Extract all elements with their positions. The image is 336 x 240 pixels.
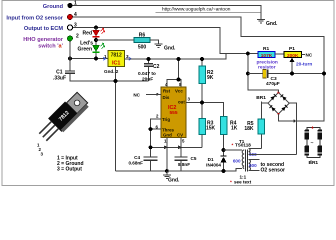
svg-text:R1: R1 xyxy=(263,46,269,52)
wire BR1 top vertex to R1 node column xyxy=(248,54,279,93)
svg-text:*: * xyxy=(230,180,232,185)
svg-text:3: 3 xyxy=(126,54,129,59)
wire rail B trig/thres xyxy=(151,135,203,148)
ground symbol bottom xyxy=(163,171,180,184)
svg-text:out: out xyxy=(178,100,185,105)
svg-text:Gnd.: Gnd. xyxy=(104,69,114,74)
svg-text:BR1: BR1 xyxy=(256,95,266,101)
junction 555 gnd on bottom rail xyxy=(165,169,169,173)
svg-text:R6: R6 xyxy=(139,33,146,39)
resistor R3 xyxy=(199,119,216,148)
wire pin1 ground rail xyxy=(72,6,261,20)
resistor R4 xyxy=(220,117,237,156)
svg-text:470µF: 470µF xyxy=(266,81,280,87)
wire 555 pin7 NC stub xyxy=(146,94,161,96)
wire IC1 gnd column xyxy=(115,67,117,172)
svg-text:IN4004: IN4004 xyxy=(206,163,221,168)
wire T1 secondary top to R5 xyxy=(249,148,262,150)
wire pin4 O2 input net xyxy=(72,17,324,121)
label to second O2 sensor xyxy=(261,162,286,174)
svg-text:2: 2 xyxy=(116,69,119,74)
svg-text:200K: 200K xyxy=(287,53,299,59)
svg-text:Vcc: Vcc xyxy=(175,89,183,94)
svg-text:1: 1 xyxy=(74,1,77,7)
diode D1 xyxy=(206,156,226,171)
svg-text:20-turn: 20-turn xyxy=(296,62,312,68)
svg-text:Input from O2 sensor: Input from O2 sensor xyxy=(6,16,63,22)
svg-text:15K: 15K xyxy=(206,126,216,132)
svg-text:4: 4 xyxy=(165,82,168,87)
svg-text:CV: CV xyxy=(177,133,183,138)
svg-text:0.047 to: 0.047 to xyxy=(138,71,156,77)
svg-text:0.68nF: 0.68nF xyxy=(128,161,143,166)
svg-text:C5: C5 xyxy=(191,156,197,161)
svg-text:107K: 107K xyxy=(261,53,273,59)
resistor R2 xyxy=(199,59,214,119)
svg-text:Gnd.: Gnd. xyxy=(266,21,278,27)
svg-text:see text: see text xyxy=(234,180,252,185)
svg-text:http://www.uoguelph.ca/~antoon: http://www.uoguelph.ca/~antoon xyxy=(162,7,231,13)
wire 555 out line xyxy=(186,103,224,117)
svg-text:HHO generator: HHO generator xyxy=(23,37,64,43)
URL text xyxy=(156,7,262,13)
wire trig/thres connections xyxy=(151,119,162,157)
wire IC1 output rail xyxy=(125,54,227,60)
svg-text:20uF: 20uF xyxy=(142,77,153,83)
bridge rectifier BR1 diamond xyxy=(256,92,289,115)
wire T1 secondary bottom to column xyxy=(249,154,297,156)
svg-text:3: 3 xyxy=(41,152,44,157)
transformer T1 xyxy=(232,139,258,172)
svg-text:Green: Green xyxy=(78,47,92,53)
capacitor C5 xyxy=(175,138,197,172)
junction LED midpoint to R6 xyxy=(94,38,98,42)
resistor R1 precision xyxy=(257,46,278,70)
svg-text:D1: D1 xyxy=(208,157,214,162)
svg-text:500: 500 xyxy=(138,45,147,51)
wire to R6 xyxy=(96,39,134,41)
svg-text:Dis: Dis xyxy=(163,95,170,100)
regulator IC1 7812 xyxy=(103,51,131,75)
svg-text:NC: NC xyxy=(133,93,140,98)
svg-text:~: ~ xyxy=(311,141,314,147)
node pin 1 Ground xyxy=(43,1,77,11)
svg-text:8.8nF: 8.8nF xyxy=(178,162,190,167)
svg-text:18K: 18K xyxy=(244,126,254,132)
ground symbol top right xyxy=(257,20,265,23)
capacitor C1 xyxy=(53,41,75,82)
TO-220 package pictorial 7812 xyxy=(36,91,90,157)
svg-text:600: 600 xyxy=(249,163,257,168)
svg-text:Gnd.: Gnd. xyxy=(168,178,180,184)
svg-text:BR1: BR1 xyxy=(309,160,319,166)
wire bottom ground rail xyxy=(116,168,243,171)
svg-text:3: 3 xyxy=(74,23,77,29)
svg-text:3 = Output: 3 = Output xyxy=(57,167,82,173)
svg-text:Ground: Ground xyxy=(43,4,64,10)
svg-text:.33uF: .33uF xyxy=(53,76,66,82)
svg-text:NC: NC xyxy=(306,53,313,58)
svg-text:IC1: IC1 xyxy=(112,61,120,67)
junction R1 column top xyxy=(246,52,250,56)
wire R4 node to transformer primary top xyxy=(224,149,243,151)
junction LED bottom xyxy=(94,57,98,61)
svg-text:Gnd.: Gnd. xyxy=(164,46,176,52)
svg-text:3: 3 xyxy=(188,97,191,102)
junction C2 top xyxy=(147,57,151,61)
junction pin2 corner xyxy=(68,57,72,61)
junction C3 left xyxy=(246,72,250,76)
junction out R2R3 xyxy=(200,101,204,105)
bridge rectifier BR1 package pictorial xyxy=(305,125,323,166)
svg-text:+: + xyxy=(311,125,314,131)
wire pin3 ECM output net xyxy=(73,28,259,54)
node pin 2 HHO generator switch xyxy=(23,34,79,50)
resistor R6 xyxy=(134,33,150,51)
svg-text:Red: Red xyxy=(83,31,92,37)
label NC pin7 xyxy=(133,93,140,98)
junction rail B xyxy=(149,145,153,149)
junction R2 top xyxy=(200,57,204,61)
junction P1 wiper rail xyxy=(290,72,326,76)
junction IC1 gnd / rail xyxy=(114,79,118,83)
wire LED chain xyxy=(95,28,97,59)
svg-text:P1: P1 xyxy=(289,46,295,52)
label 1:1 see text xyxy=(230,175,252,185)
svg-text:600: 600 xyxy=(233,159,241,164)
timer IC2 555 xyxy=(156,82,191,144)
svg-text:Rst: Rst xyxy=(163,89,171,94)
svg-text:2: 2 xyxy=(76,34,79,40)
svg-text:C4: C4 xyxy=(134,155,140,160)
svg-text:C2: C2 xyxy=(153,64,160,70)
wire R6 to ground xyxy=(150,40,159,44)
junction thres xyxy=(149,127,153,131)
wire Vcc drop to 555 xyxy=(167,59,181,87)
wire T1 lower secondary leads xyxy=(249,160,260,171)
legend TO-220 pins xyxy=(57,156,84,173)
node pin 3 output to ECM xyxy=(24,23,77,33)
junction D1 bottom xyxy=(222,169,226,173)
label Led's xyxy=(80,41,93,47)
potentiometer P1 xyxy=(275,46,313,74)
svg-text:switch 'a': switch 'a' xyxy=(38,44,63,50)
ground symbol at R6 xyxy=(155,44,163,47)
svg-text:TS0118: TS0118 xyxy=(235,143,251,148)
svg-text:Trig: Trig xyxy=(162,117,170,122)
capacitor C4 xyxy=(128,155,157,171)
svg-text:9K: 9K xyxy=(207,75,214,81)
wire 555 gnd column xyxy=(166,138,168,172)
crossing arrows on rail B xyxy=(164,146,183,150)
svg-text:4: 4 xyxy=(74,12,77,18)
capacitor C3 electrolytic xyxy=(248,70,324,88)
svg-text:7812: 7812 xyxy=(111,53,122,59)
svg-text:*: * xyxy=(232,143,234,148)
svg-text:1K: 1K xyxy=(231,126,238,132)
LED green xyxy=(78,43,105,53)
svg-text:resistor: resistor xyxy=(258,64,276,70)
capacitor C2 xyxy=(138,59,160,83)
svg-text:5: 5 xyxy=(182,139,185,144)
junction at LED top xyxy=(94,26,98,30)
svg-text:555: 555 xyxy=(170,110,178,116)
wire BR1 bottom vertex to junction xyxy=(278,114,296,123)
wire ground rail under IC1 xyxy=(70,80,149,82)
svg-text:2: 2 xyxy=(156,114,159,119)
wire BR1 left vertex to R5 xyxy=(261,102,268,104)
svg-text:8: 8 xyxy=(179,82,182,87)
junction Vcc drop xyxy=(177,57,181,81)
junction R4 bottom node xyxy=(222,148,226,152)
wire pin2 switch net down to IC1 input xyxy=(70,41,108,59)
LED red xyxy=(83,28,105,37)
wire BR1 right vertex down xyxy=(289,103,296,154)
svg-text:Gnd: Gnd xyxy=(163,133,172,138)
node pin 4 input from O2 sensor xyxy=(6,12,77,22)
border frame xyxy=(2,1,334,186)
resistor R5 xyxy=(244,102,264,149)
svg-text:Output to ECM: Output to ECM xyxy=(24,26,63,32)
svg-text:O2 sensor: O2 sensor xyxy=(261,168,286,174)
